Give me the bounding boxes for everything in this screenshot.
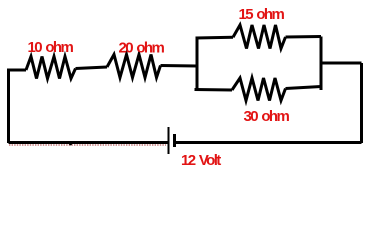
resistor R4 30 ohm zigzag <box>232 78 286 101</box>
wire: outer right vertical <box>360 63 363 143</box>
resistor R3 15 ohm zigzag <box>233 25 286 49</box>
spell-squiggle dotted line under bottom wire <box>9 144 166 146</box>
wire: stub from box to outer right vertical <box>321 62 362 65</box>
wire: parallel box left vertical <box>196 38 199 90</box>
wire between R1 and R2 <box>76 67 108 69</box>
junction dot on bottom wire <box>69 143 72 146</box>
wire: top branch left segment <box>196 36 234 40</box>
svg-text:30 ohm: 30 ohm <box>244 108 290 125</box>
svg-text:15 ohm: 15 ohm <box>239 6 285 23</box>
battery B1 long plate <box>168 127 170 154</box>
resistor R1 10 ohm zigzag <box>26 57 76 79</box>
svg-text:20 ohm: 20 ohm <box>119 40 165 57</box>
wire: top-left horizontal entry to R1 <box>7 69 26 72</box>
wire: left vertical from top-left corner down to bottom wire <box>7 70 10 143</box>
wire: bottom right of battery <box>176 141 362 144</box>
wire: parallel box right vertical <box>320 37 323 91</box>
wire: bottom branch right segment <box>286 87 322 89</box>
svg-text:10 ohm: 10 ohm <box>28 39 74 56</box>
battery B1 short plate <box>173 134 176 147</box>
wire: top branch right segment <box>286 35 322 39</box>
wire between R2 and parallel box <box>161 64 198 68</box>
wire: bottom left of battery <box>9 141 168 144</box>
wire: bottom branch left segment <box>195 88 233 92</box>
svg-text:12 Volt: 12 Volt <box>181 152 221 169</box>
resistor R2 20 ohm zigzag <box>107 55 161 78</box>
